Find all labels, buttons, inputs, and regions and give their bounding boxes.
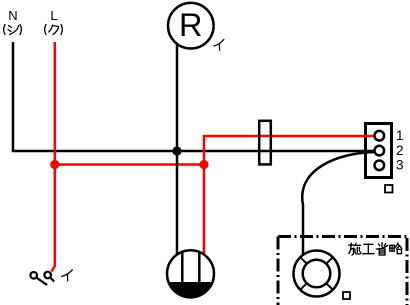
node N kana (shi) label (4, 25, 22, 35)
wire red horizontal from L to lamp-node (55, 163, 204, 166)
terminal 3 screw (375, 161, 385, 171)
svg-text:2: 2 (396, 143, 404, 158)
terminal 1 screw (375, 131, 385, 141)
kanji RYAKU (abbreviate) (390, 243, 402, 254)
construction-omitted text (shi-kou-shou-ryaku) (349, 243, 402, 255)
omitted receptacle tick 225 (300, 283, 307, 290)
connector sleeve rectangle (259, 121, 271, 165)
omitted lamp receptacle outer ring (294, 251, 340, 297)
node N label (8, 8, 17, 23)
svg-text:3: 3 (396, 158, 404, 173)
wire N source vertical (12, 42, 15, 151)
terminal pin numbers (396, 128, 404, 172)
wire red down to receptacle (203, 165, 206, 255)
kanji SE (shi) (349, 243, 361, 255)
junction dot red at lamp node (199, 160, 208, 169)
wire black from lamp R down to receptacle (176, 44, 179, 255)
wire N horizontal to terminal 2 (12, 150, 375, 153)
terminal 2 screw (375, 146, 385, 156)
kanji SHOU (sei) (376, 243, 387, 255)
construction-omitted boundary box (dash-dot) (278, 237, 409, 305)
svg-text:R: R (179, 7, 202, 43)
lamp R circle (168, 3, 214, 49)
curved wire from terminal 2 to omitted receptacle (302, 152, 374, 256)
svg-text:N: N (8, 8, 17, 23)
node L kana (ku) label (45, 25, 63, 35)
lamp receptacle filled base (168, 282, 213, 299)
terminal block mounting square (385, 185, 393, 193)
omitted receptacle tick 45 (326, 257, 333, 264)
lamp receptacle (bottom centre) body (167, 250, 214, 297)
omitted receptacle tick 135 (300, 257, 307, 264)
svg-text:1: 1 (396, 128, 404, 143)
omitted receptacle tick 315 (326, 283, 333, 290)
lamp receptacle terminal lead left (181, 251, 184, 283)
switch blade (36, 278, 47, 285)
terminal block body (366, 124, 392, 178)
svg-text:L: L (50, 8, 57, 23)
node L label (50, 8, 57, 23)
lamp receptacle terminal lead right (198, 251, 201, 283)
omitted receptacle mounting square (343, 292, 350, 299)
kanji KOU (work) (363, 244, 374, 253)
switch kana (i) label (62, 270, 73, 281)
lamp R kana (i) label (214, 40, 224, 51)
junction dot red at L tap (50, 160, 59, 169)
wire L source vertical (red) to switch (52, 42, 55, 272)
wire red up and over to terminal 1 (204, 136, 375, 165)
omitted lamp receptacle inner ring (303, 260, 331, 288)
switch (i) terminal circles (30, 272, 37, 279)
switch fixed-contact tail (50, 278, 54, 282)
junction dot black (172, 146, 181, 155)
